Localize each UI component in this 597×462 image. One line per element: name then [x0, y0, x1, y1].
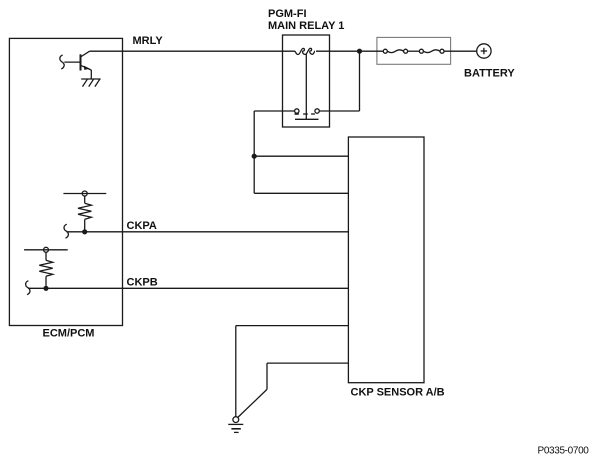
svg-text:CKPA: CKPA — [127, 220, 157, 232]
svg-text:BATTERY: BATTERY — [464, 68, 515, 80]
svg-text:P0335-0700: P0335-0700 — [538, 446, 590, 457]
svg-text:PGM-FI: PGM-FI — [268, 8, 307, 20]
svg-text:ECM/PCM: ECM/PCM — [43, 327, 95, 339]
svg-text:MAIN RELAY 1: MAIN RELAY 1 — [268, 20, 344, 32]
svg-text:CKPB: CKPB — [127, 276, 158, 288]
svg-text:MRLY: MRLY — [133, 35, 164, 47]
svg-text:CKP SENSOR A/B: CKP SENSOR A/B — [351, 387, 445, 399]
